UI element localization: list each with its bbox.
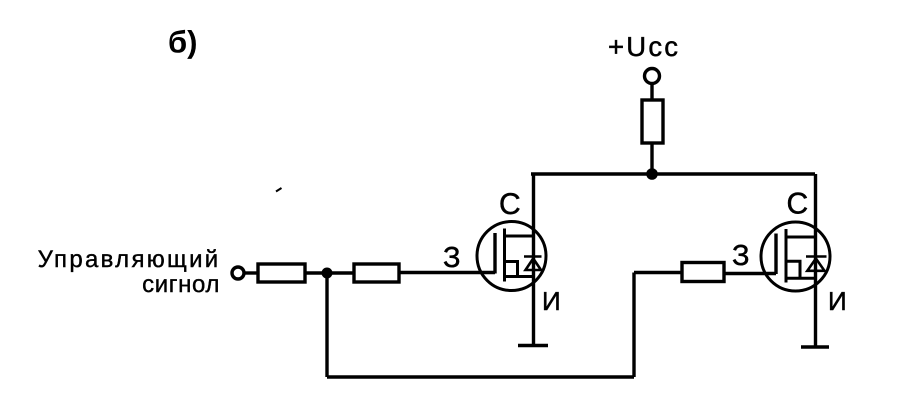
transistor VT2 body circle [761,222,830,291]
supply terminal [645,69,660,84]
resistor R4 [682,263,724,282]
wire terminal to R2 [244,271,258,274]
VT1 gate electrode bar [493,233,496,274]
VT2 body diode [806,257,827,271]
VT2 substrate tap [786,261,800,278]
VT1 substrate tap [505,262,518,277]
wire R1 to rail [650,143,653,174]
svg-text:И: И [542,286,561,316]
VT2 drain tap [786,236,817,239]
wire up toward R4 [632,273,635,378]
input label Управляющий сигнол [38,246,221,298]
wire VT2 drain-source vertical [814,174,817,347]
junction dot on rail [646,168,658,180]
wire VT1 drain-source vertical [532,174,535,345]
VT1 body diode [524,257,542,271]
svg-text:И: И [828,286,847,316]
transistor VT1 body circle [477,222,546,291]
svg-text:С: С [787,188,809,221]
resistor R3 [354,264,399,282]
input terminal [232,267,244,279]
wire R2 to R3 [305,271,354,274]
VT1 source tap [505,275,536,278]
wire R4 to VT2 gate [724,272,776,275]
wire R3 to VT1 gate [399,271,495,274]
wire to R4 [634,271,682,274]
resistor R2 [258,264,305,282]
resistor R1 [642,100,663,143]
junction dot node A [322,268,333,279]
svg-text:З: З [732,240,750,272]
stray mark [276,188,282,192]
svg-text:сигнол: сигнол [142,271,220,298]
svg-text:С: С [499,188,521,221]
wire supply rail [531,172,815,175]
svg-text:б): б) [168,25,197,60]
ground VT1 source [518,344,548,348]
VT1 channel bar [503,229,506,282]
VT1 drain tap [505,235,536,238]
VT2 source tap [786,277,817,280]
wire node A down [325,273,328,377]
VT2 gate electrode bar [774,234,777,275]
wire bottom run [327,375,634,378]
ground VT2 source [801,345,829,349]
svg-text:+Ucc: +Ucc [608,31,680,62]
svg-text:З: З [443,242,461,274]
wire terminal to R1 [650,84,653,101]
svg-text:Управляющий: Управляющий [38,246,221,273]
VT2 channel bar [785,229,788,283]
